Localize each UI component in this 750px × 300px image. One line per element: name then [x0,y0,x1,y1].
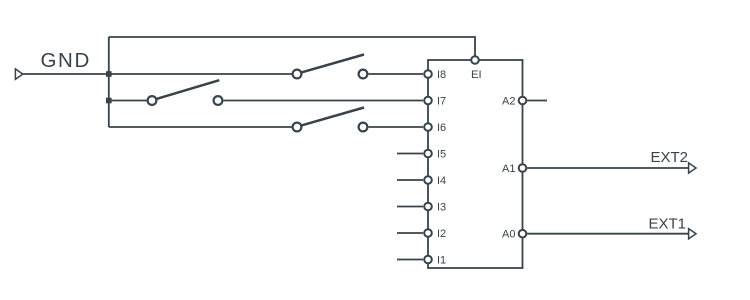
switch S2 contacts [148,96,157,105]
pin I2 [424,229,432,237]
svg-text:I2: I2 [437,228,446,240]
svg-text:I7: I7 [437,96,446,108]
pin I1 [424,256,432,264]
wire stub I3 [397,206,423,208]
switch S3 lever [301,108,364,126]
pin A0 [519,230,527,238]
svg-text:I1: I1 [437,255,446,267]
svg-text:A1: A1 [502,163,515,175]
wire stub I1 [397,259,423,261]
junction node row I7 [106,98,112,104]
wire bus to switch S3 [109,126,292,128]
svg-text:I3: I3 [437,202,446,214]
pin A1 [519,164,527,172]
switch S2 lever [156,80,219,99]
svg-text:A0: A0 [502,229,515,241]
wire top EI run [109,37,475,56]
pin I4 [424,176,432,184]
svg-text:EXT1: EXT1 [648,216,686,233]
wire bus to switch S2 [109,100,147,102]
wire GND to switch S1 [23,73,292,75]
switch S3 contacts [293,123,302,132]
svg-text:I8: I8 [437,69,446,81]
pin I8 [424,70,432,78]
svg-text:I5: I5 [437,149,446,161]
output arrow EXT2 [689,163,696,173]
switch S1 contacts [293,70,302,79]
svg-text:GND: GND [41,49,91,72]
pin I6 [424,123,432,131]
svg-text:I6: I6 [437,122,446,134]
svg-text:I4: I4 [437,175,446,187]
wire S1 to I8 [369,73,424,75]
wire stub I5 [397,153,423,155]
input port arrow GND [15,69,22,79]
junction node row I8 [106,71,112,77]
pin EI [471,56,479,64]
svg-text:EI: EI [471,69,482,81]
switch S1 lever [301,55,364,73]
wire S3 to I6 [369,126,424,128]
wire stub A2 [527,100,547,102]
wire A0 to EXT1 [527,233,689,235]
wire stub I2 [397,232,423,234]
wire GND vertical bus [108,37,110,127]
pin A2 [519,97,527,105]
svg-text:EXT2: EXT2 [650,149,688,166]
wire stub I4 [397,179,423,181]
svg-text:A2: A2 [502,96,515,108]
wire A1 to EXT2 [527,167,689,169]
pin I3 [424,203,432,211]
pin I5 [424,150,432,158]
output arrow EXT1 [689,229,696,239]
IC U1 body [428,60,523,268]
wire S2 to I7 [224,100,424,102]
pin I7 [424,97,432,105]
